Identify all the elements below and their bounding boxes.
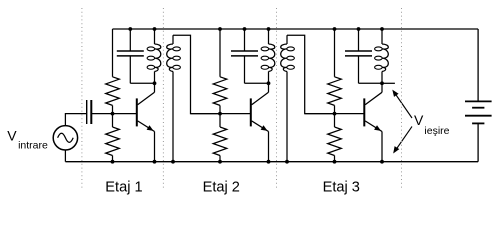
svg-text:V: V (7, 128, 17, 144)
svg-text:V: V (414, 112, 424, 128)
svg-text:Etaj 2: Etaj 2 (203, 179, 240, 195)
svg-text:ieşire: ieşire (424, 125, 449, 137)
svg-text:intrare: intrare (18, 140, 48, 152)
svg-text:Etaj 1: Etaj 1 (105, 179, 142, 195)
svg-text:Etaj 3: Etaj 3 (323, 179, 360, 195)
